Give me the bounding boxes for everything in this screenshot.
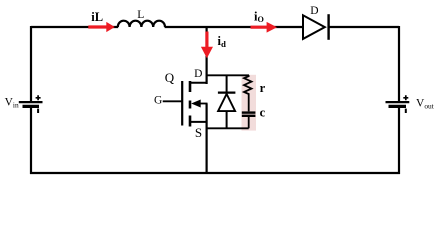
current arrow iO [251, 22, 278, 33]
wire top bus [31, 26, 399, 28]
svg-text:G: G [154, 95, 162, 107]
battery Vin [19, 95, 43, 113]
transistor Q (MOSFET) [163, 81, 208, 127]
node drain junction: vertical from top bus [206, 27, 208, 84]
svg-text:D: D [310, 5, 318, 17]
svg-text:Vout: Vout [416, 98, 435, 111]
wire snubber top branch [207, 74, 249, 76]
wire right rail [398, 26, 400, 174]
resistor r (snubber) [244, 75, 252, 111]
svg-text:iO: iO [254, 10, 264, 25]
diode D (output) [303, 14, 329, 40]
wire snubber bottom branch [207, 127, 249, 129]
wire source vertical to bottom bus [206, 104, 208, 174]
current arrow iL [88, 22, 115, 32]
body diode (antiparallel) [218, 75, 236, 128]
svg-text:id: id [218, 34, 226, 49]
svg-text:c: c [260, 105, 266, 119]
svg-text:L: L [137, 9, 144, 21]
wire drain lead [190, 82, 208, 84]
inductor L [118, 21, 165, 27]
svg-text:iL: iL [91, 10, 103, 24]
wire left rail [30, 26, 32, 174]
wire bottom bus [30, 172, 400, 174]
svg-text:S: S [195, 125, 202, 140]
capacitor c (snubber) [242, 113, 256, 129]
current arrow id [201, 32, 213, 59]
svg-text:Q: Q [165, 70, 175, 85]
svg-text:r: r [260, 81, 266, 95]
svg-text:D: D [194, 68, 202, 80]
snubber highlight box [242, 75, 257, 131]
battery Vout [386, 95, 410, 113]
svg-text:Vin: Vin [5, 97, 19, 110]
wire source lead [190, 121, 208, 123]
